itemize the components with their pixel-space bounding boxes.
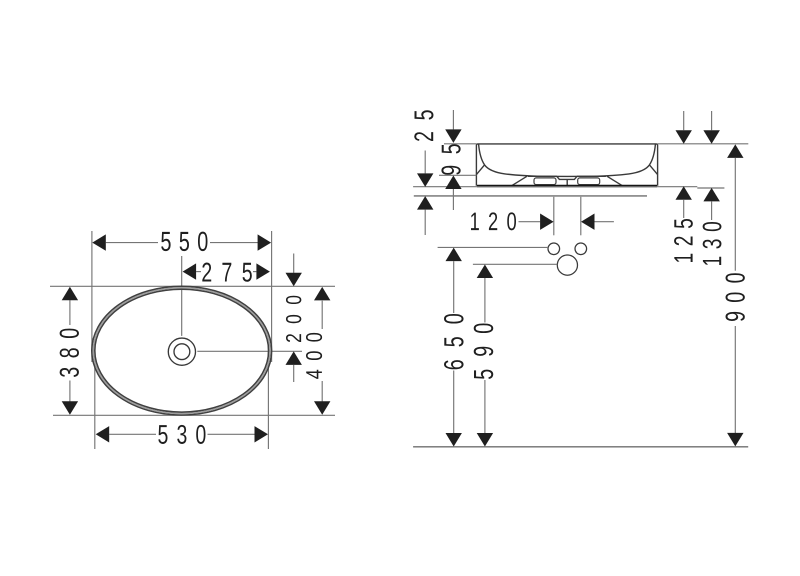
dim 400: [321, 301, 323, 329]
step line: [697, 187, 724, 189]
dim 590: [477, 265, 493, 279]
dim 650: [446, 248, 462, 262]
rim extension left: [444, 143, 476, 145]
rim extension right: [658, 143, 749, 145]
dim 25: [424, 151, 426, 174]
inner ellipse: [95, 289, 269, 412]
right ext line inner: [267, 340, 269, 449]
outer ellipse: [92, 286, 272, 415]
dim 95: [452, 110, 454, 129]
bottom tangent line: [53, 414, 335, 416]
lower line: [414, 195, 647, 197]
dim 125: [683, 111, 685, 130]
drain outer circle: [168, 338, 195, 365]
basin outline: [476, 144, 657, 186]
drain inner circle: [174, 344, 190, 360]
center vertical line: [181, 256, 183, 336]
dim 900: [727, 144, 743, 158]
faucet hole small right: [575, 243, 587, 255]
dim 130: [711, 111, 713, 130]
center horizontal line: [197, 350, 302, 352]
basin bottom bold: [477, 185, 657, 188]
inner wall left: [479, 144, 567, 176]
dim 530: [109, 433, 156, 435]
dim 120: [553, 197, 555, 236]
dim 550: [106, 242, 158, 244]
right tab: [578, 178, 600, 185]
650 ref line: [438, 246, 548, 248]
left tab: [534, 178, 556, 185]
shelf line: [528, 175, 557, 177]
590 ref line: [473, 263, 557, 265]
dim 200: [293, 254, 295, 273]
left chamfer: [476, 165, 484, 174]
center drain trapezoid: [557, 176, 577, 179]
rim band mid tone: [93, 288, 270, 414]
inner wall right: [567, 144, 655, 176]
drain hole large: [557, 255, 577, 275]
95 ref line: [439, 174, 476, 176]
dim 380: [69, 300, 71, 325]
counter line: [413, 186, 697, 188]
left big diagonal: [512, 176, 527, 186]
right ext line outer: [271, 231, 273, 362]
faucet hole small left: [548, 243, 560, 255]
left ext line inner: [94, 340, 96, 449]
right big diagonal: [607, 176, 622, 186]
floor line: [413, 446, 748, 448]
dim 275: [196, 271, 201, 273]
right chamfer: [650, 165, 658, 174]
top tangent line: [50, 285, 335, 287]
left ext line outer: [91, 231, 93, 362]
